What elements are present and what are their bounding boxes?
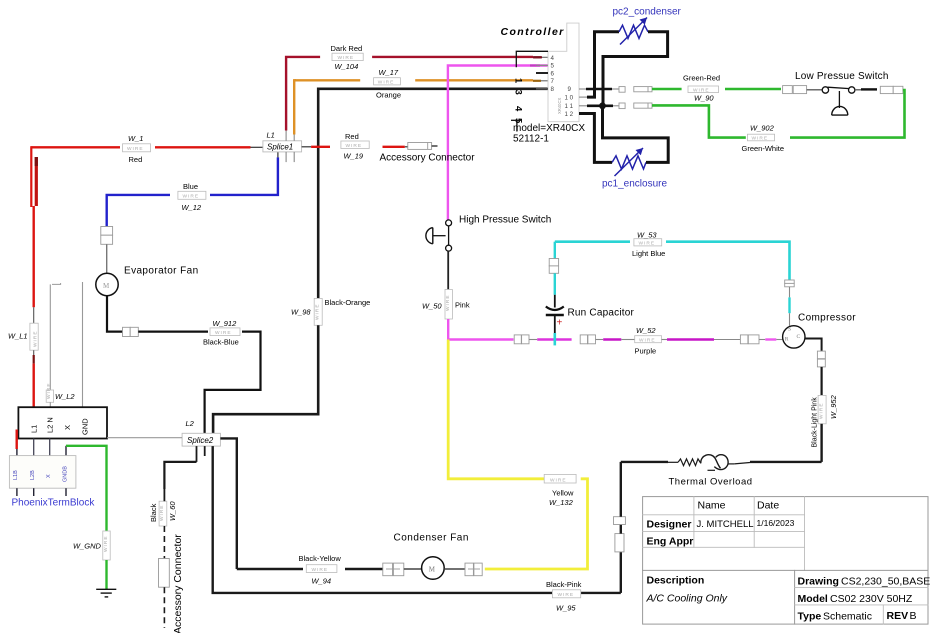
- svg-text:S: S: [788, 327, 791, 333]
- svg-text:W_132: W_132: [549, 498, 574, 507]
- wire black pin8 / W_98: [318, 89, 548, 299]
- splice L1 node: [263, 141, 302, 152]
- svg-text:WIRE: WIRE: [558, 592, 575, 598]
- svg-text:WIRE: WIRE: [159, 504, 165, 521]
- svg-text:Dark Red: Dark Red: [331, 44, 363, 53]
- svg-text:L1: L1: [30, 425, 39, 433]
- wire orange W_17: [294, 80, 296, 134]
- svg-text:L1: L1: [267, 131, 275, 140]
- svg-text:WIRE: WIRE: [103, 535, 109, 552]
- svg-text:W_GND: W_GND: [73, 542, 102, 551]
- svg-text:W_L1: W_L1: [8, 332, 28, 341]
- wire label W_12 / Blue: [178, 191, 206, 199]
- wire LPS to connector: [855, 89, 862, 91]
- controller pin stubs 4-8: [534, 56, 543, 58]
- svg-text:Light Blue: Light Blue: [632, 249, 665, 258]
- svg-text:Name: Name: [698, 500, 726, 512]
- wire W_1 red horizontal: [31, 146, 120, 148]
- svg-text:Type: Type: [798, 610, 822, 622]
- wire splice2 right branch: [220, 438, 236, 569]
- svg-text:Black-Blue: Black-Blue: [203, 338, 239, 347]
- svg-text:1 0: 1 0: [565, 94, 574, 101]
- svg-text:WIRE: WIRE: [639, 241, 656, 247]
- wire magenta pin5: [448, 66, 548, 220]
- connector pair below fan: [123, 327, 131, 336]
- wire stubs splice2: [196, 446, 198, 462]
- svg-text:WIRE: WIRE: [752, 136, 769, 142]
- svg-text:C: C: [797, 334, 801, 340]
- wire dark red W_104: [286, 57, 320, 131]
- connector before LPS: [783, 86, 793, 94]
- svg-text:Eng Appr: Eng Appr: [647, 536, 694, 548]
- wire pin9: [579, 88, 587, 90]
- svg-text:52112-1: 52112-1: [513, 133, 549, 144]
- svg-text:W_50: W_50: [422, 302, 442, 311]
- wire label W_L2: [46, 390, 53, 402]
- splice L2 node: [182, 433, 220, 446]
- svg-text:Black-Light Pink: Black-Light Pink: [812, 397, 819, 448]
- svg-text:WIRE: WIRE: [818, 402, 824, 419]
- svg-text:Blue: Blue: [183, 182, 198, 191]
- wire pin11: [579, 105, 588, 107]
- svg-text:Drawing: Drawing: [798, 576, 839, 588]
- svg-text:L2B: L2B: [30, 470, 36, 480]
- wire pink to purple run: [448, 338, 513, 340]
- svg-text:GNDB: GNDB: [63, 466, 69, 482]
- wire label W_912 / Black-Blue: [210, 328, 240, 336]
- wire W_1 to Splice1 black tip: [251, 146, 263, 148]
- svg-text:W_52: W_52: [636, 326, 656, 335]
- svg-text:Schematic: Schematic: [823, 610, 872, 622]
- svg-text:Yellow: Yellow: [552, 489, 574, 498]
- svg-text:Run Capacitor: Run Capacitor: [568, 308, 635, 319]
- wire W_95 black-pink bottom: [213, 446, 621, 593]
- wire red W_19: [302, 146, 312, 148]
- connector on blue wire: [101, 227, 113, 236]
- svg-text:PhoenixTermBlock: PhoenixTermBlock: [12, 498, 96, 509]
- wire W_952 black-light pink: [805, 339, 822, 352]
- svg-text:M: M: [103, 282, 110, 290]
- connector pair right of condenser fan: [465, 563, 473, 576]
- wire W_50 pink: [447, 251, 449, 289]
- svg-text:Evaporator Fan: Evaporator Fan: [124, 266, 199, 277]
- RIGHTTOP: [652, 71, 905, 153]
- svg-text:1: 1: [513, 78, 524, 84]
- CONTROLLER: [213, 23, 585, 433]
- svg-text:1 2: 1 2: [565, 111, 574, 118]
- svg-text:Black-Orange: Black-Orange: [325, 298, 371, 307]
- THERMISTORS: [579, 7, 682, 190]
- svg-text:W_912: W_912: [213, 319, 238, 328]
- PhoenixTermBlock box: [9, 456, 76, 489]
- wire gray terminal box to splice2: [107, 437, 182, 439]
- svg-text:Splice1: Splice1: [267, 143, 293, 152]
- svg-text:pc1_enclosure: pc1_enclosure: [602, 179, 667, 190]
- svg-text:WIRE: WIRE: [215, 330, 232, 336]
- svg-text:pc2_condenser: pc2_condenser: [613, 7, 682, 18]
- TITLEBLOCK: [643, 497, 931, 624]
- svg-text:7: 7: [551, 78, 555, 85]
- svg-text:High Pressue Switch: High Pressue Switch: [459, 215, 551, 226]
- wire yellow W_132: [485, 479, 588, 569]
- svg-text:Accessory Connector: Accessory Connector: [380, 153, 476, 164]
- svg-text:8: 8: [551, 86, 555, 93]
- thermal overload: [621, 461, 668, 463]
- wire label W_L1: [30, 323, 38, 350]
- wire stubs terminal box to Phoenix: [33, 439, 35, 456]
- svg-text:Orange: Orange: [376, 90, 401, 99]
- wire pin12 to pc1 loop: [579, 114, 612, 163]
- svg-text:W_952: W_952: [829, 394, 838, 419]
- wire purple mid: [537, 338, 571, 340]
- svg-text:W_104: W_104: [335, 62, 359, 71]
- svg-text:WIRE: WIRE: [32, 330, 38, 347]
- wire W_L1 red vertical: [30, 146, 32, 207]
- wire label W_98 / Black-Orange: [314, 298, 322, 325]
- svg-text:1/16/2023: 1/16/2023: [757, 518, 795, 528]
- svg-text:A/C Cooling Only: A/C Cooling Only: [646, 593, 728, 605]
- svg-text:L2 N: L2 N: [46, 417, 55, 433]
- svg-text:5: 5: [551, 63, 555, 70]
- svg-text:WIRE: WIRE: [639, 338, 656, 344]
- controller outline: [548, 23, 579, 122]
- svg-text:W_L2: W_L2: [55, 392, 75, 401]
- svg-text:R: R: [785, 337, 789, 343]
- terminal block box L1 L2N X GND: [18, 407, 107, 438]
- controller pin bracket 1-3: [516, 51, 548, 67]
- wire vertical to thermal overload: [620, 552, 622, 593]
- wire W_90 green-red: [652, 88, 682, 90]
- svg-text:1 1: 1 1: [565, 103, 574, 110]
- svg-text:B: B: [910, 610, 917, 622]
- wire W_94 black-yellow: [237, 568, 303, 570]
- svg-text:W_17: W_17: [379, 68, 399, 77]
- ground: [96, 588, 116, 590]
- svg-text:Description: Description: [647, 575, 705, 587]
- svg-text:CS2,230_50,BASE: CS2,230_50,BASE: [841, 576, 930, 588]
- svg-text:4: 4: [513, 106, 524, 112]
- svg-text:4: 4: [551, 55, 555, 62]
- wire blue W_12: [107, 195, 170, 244]
- svg-text:XR40CX: XR40CX: [557, 98, 562, 114]
- svg-text:Red: Red: [129, 155, 143, 164]
- svg-text:Black: Black: [149, 503, 158, 522]
- svg-text:+: +: [557, 318, 563, 329]
- svg-text:W_94: W_94: [312, 576, 332, 585]
- wire stubs below Phoenix: [16, 488, 18, 496]
- svg-text:WIRE: WIRE: [127, 146, 144, 152]
- svg-text:W_19: W_19: [344, 151, 364, 160]
- svg-text:Controller: Controller: [501, 26, 565, 38]
- run capacitor: [554, 242, 556, 259]
- svg-text:WIRE: WIRE: [312, 567, 329, 573]
- svg-text:GND: GND: [81, 418, 90, 435]
- wire gray to GND terminal: [82, 282, 84, 407]
- svg-text:Pink: Pink: [455, 301, 470, 310]
- svg-text:X: X: [46, 474, 52, 478]
- svg-text:W_12: W_12: [182, 203, 202, 212]
- thermistor pc2_condenser: [619, 25, 648, 38]
- svg-text:WIRE: WIRE: [315, 303, 321, 320]
- wire gray to fan: [106, 244, 108, 274]
- svg-text:WIRE: WIRE: [346, 143, 363, 149]
- accessory connector (bottom): [159, 559, 170, 588]
- svg-text:Green-Red: Green-Red: [683, 74, 720, 83]
- wire pin10 to pc2 loop: [579, 96, 587, 98]
- svg-text:WIRE: WIRE: [378, 80, 395, 86]
- wire red stub to Phoenix col1: [16, 430, 18, 450]
- thermistor pc1_enclosure: [612, 156, 646, 169]
- svg-text:Red: Red: [345, 132, 359, 141]
- connector purple right: [740, 335, 748, 344]
- wire W_53 light blue: [555, 240, 630, 243]
- connector pair left of condenser fan: [383, 563, 393, 576]
- junction node pin11: [599, 102, 606, 109]
- svg-text:3: 3: [513, 90, 524, 95]
- wire W_GND green: [66, 446, 107, 531]
- svg-text:W_60: W_60: [168, 501, 177, 521]
- svg-text:WIRE: WIRE: [183, 194, 200, 200]
- svg-text:9: 9: [568, 86, 572, 93]
- svg-text:W_98: W_98: [291, 308, 311, 317]
- svg-text:CS02 230V 50HZ: CS02 230V 50HZ: [830, 593, 913, 605]
- connector pin9: [619, 87, 625, 93]
- svg-text:W_90: W_90: [694, 94, 714, 103]
- svg-text:WIRE: WIRE: [445, 294, 451, 311]
- svg-text:WIRE: WIRE: [550, 477, 567, 483]
- CENTER: [422, 215, 856, 356]
- svg-text:Thermal Overload: Thermal Overload: [669, 477, 753, 488]
- svg-text:W_95: W_95: [556, 604, 576, 613]
- svg-text:W_53: W_53: [637, 231, 657, 240]
- connector pin11: [619, 103, 625, 109]
- svg-text:Compressor: Compressor: [798, 313, 856, 324]
- wire label W_GND: [103, 531, 110, 560]
- wire W_L2 gray with notch: [52, 283, 61, 284]
- svg-text:model=XR40CX: model=XR40CX: [513, 123, 585, 134]
- svg-text:Black-Yellow: Black-Yellow: [299, 554, 342, 563]
- wire W_60 black to accessory connector: [164, 462, 196, 489]
- wire W_912 black-blue: [107, 296, 123, 332]
- svg-text:J. MITCHELL: J. MITCHELL: [697, 519, 754, 530]
- svg-text:W_1: W_1: [128, 134, 143, 143]
- wire label W_1 / WIRE / Red: [123, 144, 151, 152]
- svg-text:Accessory Connector: Accessory Connector: [172, 534, 184, 633]
- svg-text:L2: L2: [186, 419, 195, 428]
- svg-text:Date: Date: [757, 500, 779, 512]
- connector on cyan right: [785, 280, 795, 283]
- evaporator fan motor: [96, 273, 118, 295]
- svg-text:Splice2: Splice2: [187, 436, 214, 445]
- svg-text:WIRE: WIRE: [46, 382, 52, 399]
- svg-text:Model: Model: [798, 593, 828, 605]
- WIRES-LEFT: [8, 134, 278, 597]
- svg-text:X: X: [63, 425, 72, 430]
- svg-text:Green-White: Green-White: [742, 144, 785, 153]
- connector purple left: [514, 335, 521, 344]
- wire W_902 green-white: [790, 90, 905, 138]
- svg-text:W_902: W_902: [750, 124, 775, 133]
- connector purple mid: [580, 335, 587, 344]
- svg-text:REV: REV: [887, 610, 909, 622]
- svg-text:Condenser Fan: Condenser Fan: [394, 533, 469, 544]
- svg-text:Designer: Designer: [647, 519, 692, 531]
- svg-text:WIRE: WIRE: [338, 55, 355, 61]
- svg-text:Black-Pink: Black-Pink: [546, 580, 582, 589]
- svg-text:M: M: [429, 566, 436, 574]
- svg-text:L1B: L1B: [13, 470, 19, 480]
- svg-text:Purple: Purple: [635, 346, 657, 355]
- svg-text:Low Pressue Switch: Low Pressue Switch: [795, 71, 889, 82]
- BOTTOM: [107, 339, 838, 633]
- svg-text:6: 6: [551, 70, 555, 77]
- accessory connector (top): [408, 143, 432, 150]
